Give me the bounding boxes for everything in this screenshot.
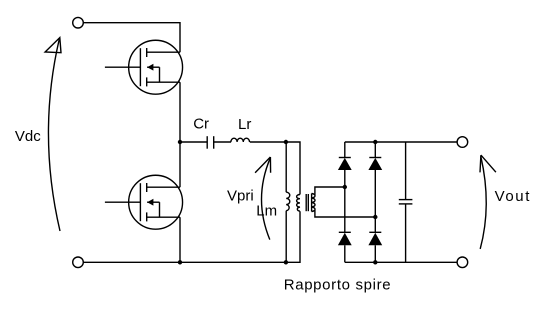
svg-text:Vout: Vout [495,188,531,205]
wire Q2 source to bottom rail [179,217,181,262]
node bottom rail right leg dot [373,260,377,264]
diode D1 (bridge top-left) [338,158,352,171]
Vdc source arrow [45,38,61,231]
node midpoint junction dot [178,140,182,144]
node Lm top junction dot [284,140,288,144]
wire bridge left leg [344,142,346,262]
wire Q1 source to midpoint node [179,82,181,142]
terminal bottom-right output [457,257,468,268]
transformer T1 secondary winding [312,187,376,217]
label Lr [238,116,251,133]
node bottom rail at Q2 source junction dot [178,260,182,264]
diode D3 (bridge bottom-left) [338,232,352,245]
node secondary top to bridge left leg dot [343,185,347,189]
svg-text:Lm: Lm [256,203,277,220]
wire top input to Q1 drain [83,23,180,53]
label Vout [495,188,531,205]
label Vpri [227,188,254,205]
Vpri arrow [255,157,271,240]
terminal top-right output [457,137,468,148]
node top rail right leg dot [373,140,377,144]
transistor Q2 (low-side MOSFET) [105,175,183,229]
transformer T1 primary winding [297,195,300,212]
Vout arrow [480,155,496,249]
inductor Lm magnetizing branch [286,142,290,262]
wire midpoint to Q2 drain [179,142,181,187]
label Vdc [15,128,41,145]
node Lm bottom junction dot [284,260,288,264]
svg-text:Vpri: Vpri [227,188,254,205]
label Cr [193,116,209,133]
diode D4 (bridge bottom-right) [368,232,382,245]
wire bottom rail secondary side [345,261,457,263]
transformer T1 core [306,194,308,211]
wire Cr to Lr [214,141,231,143]
inductor Lr [231,138,250,142]
terminal top-left input [73,17,84,28]
transistor Q1 (high-side MOSFET) [105,40,183,94]
capacitor Cout [399,142,413,262]
wire midpoint node to Cr [180,141,207,143]
label Rapporto spire [284,277,391,294]
svg-text:Rapporto spire: Rapporto spire [284,277,391,294]
svg-text:Vdc: Vdc [15,128,41,145]
svg-text:Cr: Cr [193,116,209,133]
capacitor Cr [207,136,214,149]
label Lm [256,203,277,220]
svg-text:Lr: Lr [238,116,251,133]
wire Lr to primary top [250,142,300,195]
wire bottom rail primary [83,211,300,262]
terminal bottom-left input [73,257,84,268]
wire top rail secondary side [345,141,457,143]
diode D2 (bridge top-right) [368,158,382,171]
node secondary bottom to bridge right leg dot [373,215,377,219]
wire bridge right leg [374,142,376,262]
